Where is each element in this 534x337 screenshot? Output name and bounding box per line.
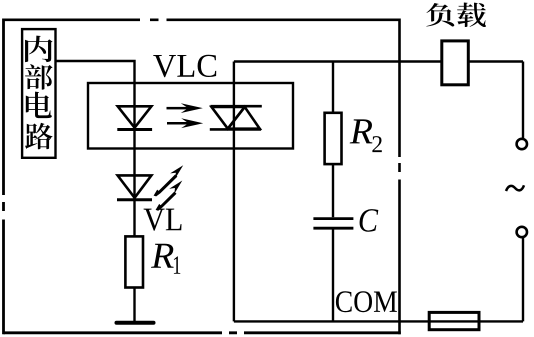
wire: R2 to capacitor C [332,164,334,217]
outer enclosure dash-dot boundary: top edge [4,18,400,21]
optocoupler input LED diode [117,106,152,129]
label C [360,209,379,232]
label 电 [26,92,52,118]
label 负 [426,3,454,26]
LED emission arrow (lower) [156,181,183,211]
light coupling arrow (upper) [167,103,203,113]
label 部 [25,64,53,89]
indicator LED VL [117,175,152,199]
outer enclosure dash-dot boundary: right edge [398,19,401,335]
label R1 [151,244,174,268]
wire: load to upper AC terminal [522,62,524,139]
light coupling arrow (lower) [167,118,203,128]
COM bottom rail [234,320,523,322]
photo-triac top lead [233,62,235,322]
lower AC terminal [517,227,527,237]
photo-triac symbol [210,106,262,129]
wire: lower AC terminal down to fuse rail [522,237,524,321]
ground bar [117,321,154,325]
wire: capacitor to COM rail [332,228,334,321]
label 内 [25,36,53,62]
outer enclosure dash-dot boundary: bottom edge [4,331,401,334]
label R2 [350,119,373,143]
fuse [429,312,479,329]
load (负载) rectangle [442,41,469,85]
AC source tilde [506,185,524,191]
label 载 [457,3,486,28]
optocoupler U (VLC) package box [88,83,293,149]
label 路 [25,123,53,150]
label VLC [153,55,216,77]
wire: top rail from triac to load [234,60,523,62]
wire: internal circuit output to LED anode [56,61,135,236]
label COM [336,291,397,312]
capacitor C plates [313,219,353,229]
wire: R1 to ground [133,288,135,322]
upper AC terminal [517,139,527,149]
resistor R2 [325,113,342,164]
LED emission arrow (upper) [154,165,184,196]
label VL [144,209,182,231]
resistor R1 [125,236,143,287]
outer enclosure dash-dot boundary: left edge [2,19,5,335]
internal-circuit block (内部电路) box [22,29,55,158]
junction/branch wire to R2 [332,62,334,113]
